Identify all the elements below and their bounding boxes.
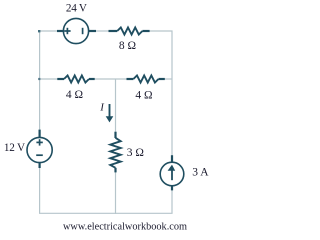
resistor R8 8ohm leads: [109, 30, 118, 32]
V2 plus sign: [36, 139, 42, 145]
voltage source V2 12V circle: [27, 137, 52, 162]
svg-text:24 V: 24 V: [66, 3, 87, 15]
wire top left: [39, 30, 57, 32]
V1 right lead: [88, 30, 96, 32]
wire right lower vertical: [116, 191, 173, 214]
V2 minus sign: [36, 154, 43, 156]
resistor R4b 4ohm zigzag: [133, 76, 158, 83]
resistor R3 3ohm leads: [114, 132, 116, 138]
wire left lower vertical: [40, 168, 116, 214]
voltage source V1 24V circle: [63, 18, 88, 43]
wire middle lower vertical: [115, 172, 117, 214]
V1 left lead: [57, 30, 64, 32]
resistor R3 3ohm zigzag: [110, 138, 120, 168]
svg-text:www.electricalworkbook.com: www.electricalworkbook.com: [63, 221, 187, 232]
svg-text:I: I: [99, 101, 105, 113]
svg-text:12 V: 12 V: [4, 142, 25, 154]
resistor R4a 4ohm leads: [57, 78, 64, 80]
wire row2 right: [165, 78, 173, 80]
svg-text:4 Ω: 4 Ω: [135, 90, 152, 102]
svg-text:8 Ω: 8 Ω: [119, 40, 136, 52]
svg-text:3 A: 3 A: [192, 167, 209, 179]
V2 bottom lead: [38, 163, 40, 168]
current source I1 3A circle: [160, 162, 184, 186]
wire left vertical: [39, 79, 41, 130]
junction dot top-left corner: [38, 30, 40, 32]
resistor R4b 4ohm leads: [127, 78, 134, 80]
wire row2 left: [40, 31, 58, 79]
wire top right: [150, 31, 173, 79]
I1 top lead: [171, 155, 173, 161]
V2 top lead: [38, 130, 40, 138]
svg-text:3 Ω: 3 Ω: [127, 147, 144, 159]
resistor R8 8ohm zigzag: [117, 28, 142, 35]
wire row2 mid: [95, 78, 127, 80]
wire top mid: [96, 30, 110, 32]
wire middle vertical: [115, 79, 117, 132]
current arrow I: [106, 104, 114, 122]
wire right vertical: [171, 79, 173, 155]
junction dot left T: [38, 78, 40, 80]
svg-text:4 Ω: 4 Ω: [66, 89, 83, 101]
V1 minus bar: [82, 28, 84, 34]
I1 arrow: [168, 165, 176, 181]
V1 plus sign: [64, 28, 70, 34]
I1 bottom lead: [171, 186, 173, 191]
resistor R4a 4ohm zigzag: [64, 76, 89, 83]
